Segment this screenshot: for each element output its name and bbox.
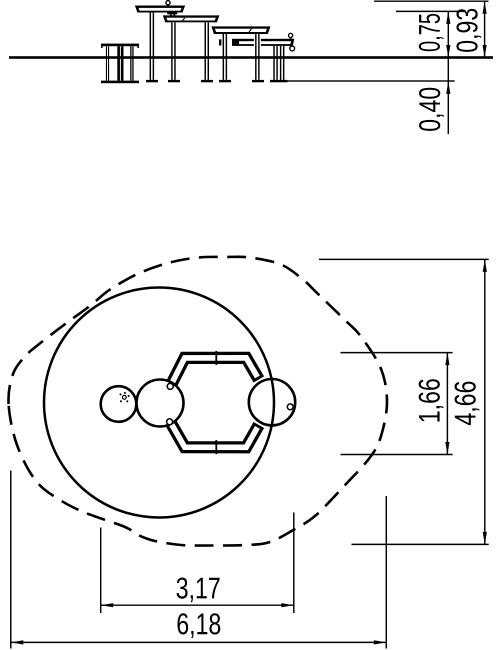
table E legs 2+3 — [117, 46, 123, 80]
label 0,75 — [419, 14, 444, 51]
bolt top-left junction — [167, 383, 173, 389]
table D leg 2 — [280, 46, 285, 80]
hexagon top midpoint tick — [215, 351, 217, 365]
arrow 6,18 right — [374, 640, 387, 644]
ground line — [9, 56, 493, 59]
label 0,93 — [456, 9, 481, 52]
table B right leg — [205, 22, 210, 80]
dimension line 0,75 — [447, 11, 449, 57]
safety zone dashed outline — [8, 257, 387, 546]
middle circle — [137, 380, 184, 427]
extension line top (0,93 reference) — [374, 0, 489, 2]
table E leg 1 — [106, 46, 109, 80]
bolt bottom-left junction — [167, 419, 173, 425]
table E top bar — [101, 44, 139, 47]
dimension line 3,17 — [101, 604, 294, 606]
extension line 4,66 bottom — [352, 543, 489, 545]
table C tabletop top band — [213, 26, 268, 28]
extension line 1,66 top — [341, 352, 453, 354]
table D tabletop top band — [239, 39, 293, 41]
table D leg 1 — [273, 46, 278, 80]
bolt right circle — [287, 404, 293, 410]
table D tabletop bottom band — [239, 44, 293, 46]
table C right foot — [252, 80, 264, 82]
dimension line 4,66 — [484, 259, 486, 544]
label 6,18 — [177, 613, 220, 638]
extension line 3,17 left — [100, 528, 102, 614]
table D tabletop right cap — [290, 39, 294, 46]
table E top bar end nubs — [101, 46, 103, 48]
arrow 1,66 up — [445, 353, 449, 366]
arrow 0,40 up — [446, 81, 450, 94]
table A knob — [166, 1, 170, 5]
table D hook ring — [290, 46, 295, 51]
big circle — [44, 288, 274, 518]
table A tabletop bottom band — [139, 11, 181, 13]
arrow 6,18 left — [11, 640, 23, 644]
right circle — [249, 379, 295, 425]
table B tabletop top band — [165, 15, 218, 17]
table D knob stem — [290, 37, 292, 39]
table B tabletop bottom band — [167, 21, 216, 23]
arrow 0,75 up — [446, 11, 450, 24]
extension line 6,18 right — [385, 496, 387, 649]
small circle left — [101, 386, 137, 422]
hexagon bottom midpoint tick — [215, 440, 217, 454]
gear symbol in small circle — [120, 392, 130, 403]
table C left foot — [219, 80, 231, 82]
table C tabletop right cap — [265, 26, 270, 34]
white halo for table C right leg crossing table D — [254, 38, 261, 46]
table A leg — [150, 13, 155, 80]
bracket between A and B — [167, 13, 177, 15]
arrow 0,93 up — [483, 1, 487, 14]
table D foot — [270, 80, 288, 82]
arrow 3,17 right — [281, 603, 294, 607]
table A tabletop left cap — [135, 6, 140, 13]
dimension line 6,18 — [11, 641, 387, 643]
arrow 1,66 down — [445, 442, 449, 455]
table D left block — [232, 39, 239, 46]
table C tabletop left cap — [211, 26, 216, 34]
table C seam — [248, 29, 252, 32]
label 3,17 — [177, 577, 220, 602]
table B left foot — [168, 80, 180, 82]
label 0,40 — [419, 88, 444, 131]
arrow 4,66 up — [483, 259, 487, 272]
arrow 4,66 down — [483, 532, 487, 545]
table A tabletop right cap — [180, 6, 185, 13]
table C tabletop bottom band — [215, 32, 265, 34]
table B seam — [182, 18, 186, 21]
table B right foot — [201, 80, 213, 82]
arrow 0,75 down — [446, 45, 450, 58]
label 1,66 — [419, 379, 444, 421]
arrow 0,93 down — [483, 45, 487, 58]
table D knob — [289, 33, 293, 37]
hexagon ring lower part — [170, 422, 259, 448]
table A foot — [146, 80, 158, 82]
table B tabletop right cap — [214, 15, 219, 22]
table D left end piece — [219, 39, 227, 45]
arrow 3,17 left — [101, 603, 114, 607]
table E bottom bar — [101, 81, 139, 84]
extension line (0,75 reference) — [396, 10, 465, 12]
dimension line 0,40 tail — [447, 58, 449, 135]
table B left leg — [171, 22, 176, 80]
white halo for table C left leg crossing table D — [221, 38, 228, 46]
footing line — [287, 80, 455, 81]
extension line 6,18 left — [10, 471, 12, 649]
hexagon ring upper part — [171, 358, 259, 386]
table A knob stem — [167, 4, 169, 6]
dimension line 0,93 — [484, 1, 486, 57]
extension line 1,66 bottom — [341, 454, 453, 456]
extension line 4,66 top — [319, 258, 489, 260]
table C left leg — [223, 34, 228, 80]
table A tabletop top band — [137, 6, 184, 8]
table C right leg — [255, 34, 260, 80]
label 4,66 — [455, 382, 480, 425]
table B tabletop left cap — [163, 15, 168, 22]
extension line 3,17 right — [293, 513, 295, 614]
table E leg 4 — [130, 46, 131, 80]
dimension line 1,66 — [446, 353, 448, 455]
